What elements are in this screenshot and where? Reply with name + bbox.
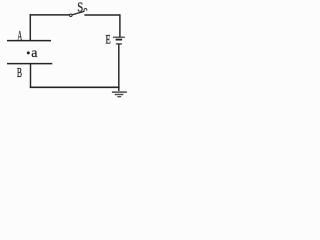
capacitor plate A [7,40,51,42]
wire right vertical upper (to battery) [119,14,121,37]
ground bar 3 (short) [117,96,121,98]
wire right vertical lower (battery to ground stub) [118,44,120,91]
svg-text:E: E [106,32,111,46]
svg-text:A: A [17,29,22,45]
svg-text:a: a [31,46,38,61]
ground bar 2 (medium) [115,94,124,96]
wire top-right segment [84,14,120,16]
switch S blade [72,11,84,15]
capacitor plate B [7,63,52,65]
wire bottom [30,86,120,88]
battery E short thick plate [116,39,123,41]
wire left vertical upper (to plate A) [29,14,31,40]
battery E lower plate [116,43,122,45]
switch S blade tip hook [84,9,87,12]
battery E long plate [113,36,125,38]
switch S contact circle [70,14,73,16]
ground bar 1 (long) [112,91,127,93]
svg-text:S: S [77,0,83,15]
wire top-left segment [30,14,70,16]
point a dot [27,51,30,54]
wire left vertical lower (plate B to bottom) [30,64,32,88]
svg-text:B: B [17,65,22,80]
